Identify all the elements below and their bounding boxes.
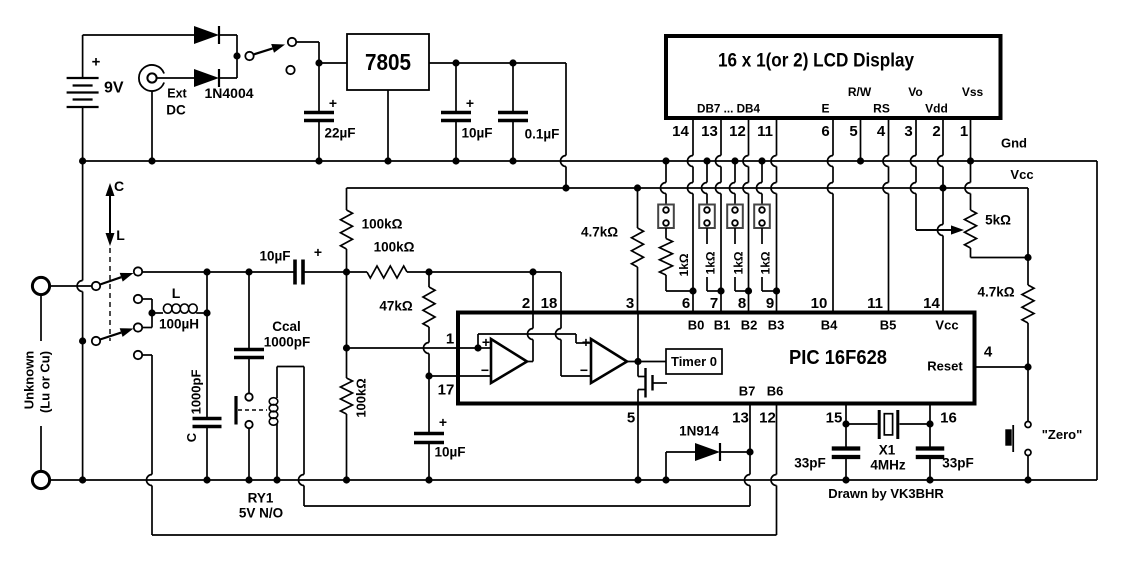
svg-text:B3: B3 (768, 318, 785, 333)
svg-text:1000pF: 1000pF (189, 370, 204, 415)
svg-text:13: 13 (701, 123, 718, 140)
svg-text:3: 3 (626, 295, 634, 312)
svg-text:9: 9 (766, 295, 774, 312)
svg-text:10: 10 (811, 295, 828, 312)
svg-text:1kΩ: 1kΩ (704, 251, 718, 274)
svg-text:10µF: 10µF (434, 445, 465, 460)
svg-text:1kΩ: 1kΩ (732, 251, 746, 274)
svg-text:Reset: Reset (927, 359, 963, 374)
svg-text:16: 16 (940, 409, 957, 426)
svg-text:+: + (582, 334, 590, 350)
svg-text:Gnd: Gnd (1001, 136, 1027, 151)
svg-text:Timer 0: Timer 0 (671, 354, 717, 369)
svg-text:3: 3 (904, 123, 912, 140)
svg-text:17: 17 (438, 381, 455, 398)
svg-text:7: 7 (710, 295, 718, 312)
svg-text:+: + (466, 95, 474, 111)
svg-text:"Zero": "Zero" (1042, 427, 1083, 442)
svg-text:13: 13 (732, 409, 749, 426)
svg-text:Ext: Ext (167, 86, 187, 100)
svg-text:X1: X1 (879, 443, 896, 458)
svg-text:+: + (329, 95, 337, 111)
svg-text:2: 2 (522, 295, 530, 312)
svg-text:100kΩ: 100kΩ (374, 240, 415, 255)
svg-text:5: 5 (849, 123, 857, 140)
svg-text:DB7 ... DB4: DB7 ... DB4 (697, 102, 760, 116)
svg-text:PIC 16F628: PIC 16F628 (789, 347, 887, 369)
svg-text:4: 4 (877, 123, 886, 140)
svg-text:L: L (116, 227, 125, 243)
svg-text:47kΩ: 47kΩ (379, 299, 413, 314)
svg-text:4: 4 (984, 343, 993, 360)
svg-text:Ccal: Ccal (272, 319, 301, 334)
svg-text:Vcc: Vcc (1010, 167, 1033, 182)
svg-text:E: E (821, 102, 829, 116)
svg-text:B7: B7 (739, 384, 756, 399)
svg-text:4MHz: 4MHz (870, 457, 906, 472)
svg-text:B5: B5 (880, 318, 897, 333)
svg-text:10µF: 10µF (461, 126, 492, 141)
svg-text:0.1µF: 0.1µF (525, 127, 560, 142)
svg-text:1kΩ: 1kΩ (759, 251, 773, 274)
svg-text:11: 11 (757, 123, 773, 140)
svg-text:DC: DC (166, 103, 186, 118)
svg-text:100kΩ: 100kΩ (354, 378, 369, 417)
svg-text:12: 12 (729, 123, 746, 140)
svg-text:RS: RS (873, 102, 890, 116)
svg-text:15: 15 (826, 409, 843, 426)
svg-text:1000pF: 1000pF (264, 335, 311, 350)
svg-text:R/W: R/W (848, 85, 872, 99)
svg-text:16 x 1(or 2) LCD Display: 16 x 1(or 2) LCD Display (718, 51, 914, 72)
svg-text:C: C (184, 432, 199, 442)
svg-text:+: + (92, 53, 101, 70)
svg-text:Vo: Vo (908, 85, 922, 99)
svg-text:B2: B2 (741, 318, 758, 333)
svg-text:18: 18 (541, 295, 558, 312)
svg-text:2: 2 (932, 123, 940, 140)
svg-text:5: 5 (627, 409, 635, 426)
svg-text:1N4004: 1N4004 (204, 85, 253, 101)
svg-text:1: 1 (960, 123, 968, 140)
svg-text:B1: B1 (714, 318, 731, 333)
svg-text:11: 11 (867, 295, 883, 312)
svg-text:8: 8 (738, 295, 746, 312)
svg-text:Drawn by VK3BHR: Drawn by VK3BHR (828, 486, 944, 501)
svg-text:9V: 9V (104, 80, 124, 97)
svg-text:10µF: 10µF (259, 249, 290, 264)
svg-text:B6: B6 (767, 384, 784, 399)
svg-text:33pF: 33pF (794, 456, 826, 471)
svg-text:6: 6 (821, 123, 829, 140)
svg-text:B0: B0 (688, 318, 705, 333)
svg-text:14: 14 (672, 123, 689, 140)
svg-text:Unknown: Unknown (22, 351, 37, 410)
svg-text:5V N/O: 5V N/O (239, 506, 283, 521)
svg-text:4.7kΩ: 4.7kΩ (977, 285, 1014, 300)
svg-text:22µF: 22µF (324, 126, 355, 141)
svg-text:4.7kΩ: 4.7kΩ (581, 225, 618, 240)
svg-text:Vdd: Vdd (925, 102, 948, 116)
svg-text:(Lu or Cu): (Lu or Cu) (38, 351, 53, 413)
svg-text:100kΩ: 100kΩ (362, 217, 403, 232)
svg-text:5kΩ: 5kΩ (985, 213, 1011, 228)
svg-text:7805: 7805 (365, 49, 411, 75)
svg-text:1kΩ: 1kΩ (677, 253, 691, 276)
svg-text:C: C (114, 178, 124, 194)
svg-text:Vss: Vss (962, 85, 984, 99)
svg-text:+: + (439, 414, 447, 430)
svg-text:6: 6 (682, 295, 690, 312)
svg-text:Vcc: Vcc (935, 318, 958, 333)
svg-text:L: L (172, 285, 181, 301)
svg-text:+: + (314, 244, 322, 260)
svg-text:100µH: 100µH (159, 317, 199, 332)
svg-text:14: 14 (923, 295, 940, 312)
svg-text:12: 12 (759, 409, 776, 426)
svg-text:RY1: RY1 (248, 491, 274, 506)
svg-text:33pF: 33pF (942, 456, 974, 471)
svg-text:B4: B4 (821, 318, 838, 333)
svg-text:1: 1 (446, 330, 454, 347)
svg-text:1N914: 1N914 (679, 424, 719, 439)
